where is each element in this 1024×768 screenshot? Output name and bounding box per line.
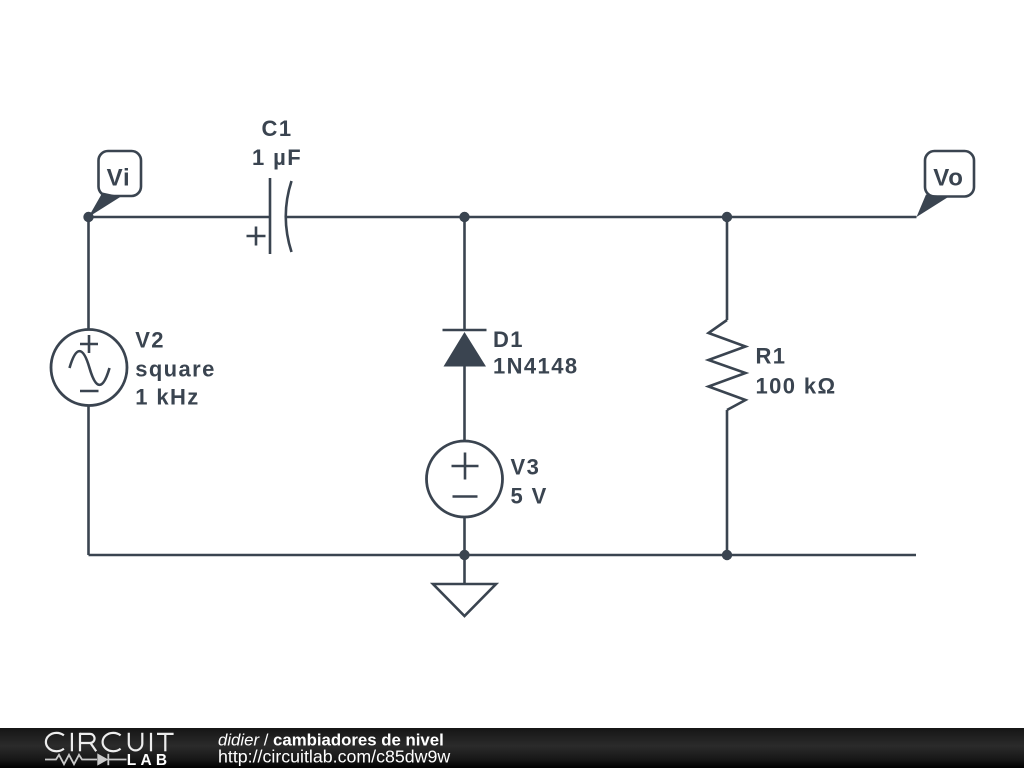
svg-text:R1: R1 — [756, 344, 787, 369]
svg-text:Vi: Vi — [107, 165, 131, 192]
svg-text:Vo: Vo — [933, 165, 964, 192]
svg-text:5 V: 5 V — [511, 484, 548, 509]
svg-text:V3: V3 — [511, 455, 541, 480]
svg-text:1 kHz: 1 kHz — [135, 385, 199, 410]
svg-text:square: square — [135, 357, 216, 382]
svg-text:V2: V2 — [135, 328, 165, 353]
svg-text:http://circuitlab.com/c85dw9w: http://circuitlab.com/c85dw9w — [218, 747, 450, 767]
svg-text:D1: D1 — [493, 327, 524, 352]
svg-text:C1: C1 — [262, 116, 293, 141]
svg-text:1 µF: 1 µF — [252, 145, 302, 170]
svg-text:LAB: LAB — [127, 752, 171, 768]
svg-text:100 kΩ: 100 kΩ — [756, 374, 837, 399]
svg-text:1N4148: 1N4148 — [493, 354, 578, 379]
